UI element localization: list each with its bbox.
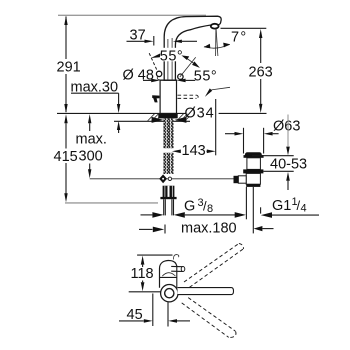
pull-rod knob on body <box>152 95 159 102</box>
drain lower body <box>246 173 260 184</box>
dimension 291 <box>57 16 81 113</box>
dimension 40-53 <box>270 115 307 191</box>
55 degree label (lever lift) <box>159 48 186 62</box>
arrowhead left 55 <box>151 53 160 58</box>
aerator <box>211 24 219 29</box>
handle bar (plan) <box>178 288 234 295</box>
svg-text:8: 8 <box>207 203 213 215</box>
svg-text:263: 263 <box>249 65 273 81</box>
G 3/8 arrows <box>141 212 246 218</box>
pull rod knob curl (plan) <box>174 255 179 260</box>
svg-text:max.180: max.180 <box>181 221 237 237</box>
bottom reference gray line <box>65 202 158 204</box>
faucet head outline (plan) <box>160 260 177 287</box>
diameter 34 arrows <box>152 117 164 123</box>
svg-text:55°: 55° <box>194 69 217 85</box>
spout outline <box>164 16 221 80</box>
drain nut band <box>243 169 263 173</box>
svg-text:415: 415 <box>54 149 78 165</box>
svg-text:143: 143 <box>182 143 206 159</box>
top reference gray line (max height) <box>58 14 206 16</box>
deck cross-section hatching <box>148 114 190 121</box>
drain bottom rim <box>246 184 260 187</box>
deck (mounting surface) line <box>57 112 186 114</box>
svg-text:40-53: 40-53 <box>270 157 307 173</box>
knob curl <box>157 76 160 80</box>
lever stub (plan) <box>171 266 185 271</box>
supply tails <box>164 199 174 215</box>
svg-text:300: 300 <box>79 149 103 165</box>
side port cap <box>234 176 239 183</box>
washer <box>160 197 176 199</box>
drain flange cylinder <box>244 128 264 154</box>
pivot circle <box>161 285 178 302</box>
pull rod ball joint <box>159 174 167 183</box>
body right side <box>176 266 178 288</box>
spout inner lines <box>167 39 169 80</box>
svg-text:max.: max. <box>76 132 107 148</box>
dimension max.180 <box>139 221 274 237</box>
double arrow right 55 <box>181 55 189 60</box>
svg-text:55°: 55° <box>160 49 183 65</box>
dimension 45 <box>119 294 190 327</box>
leader line right <box>180 57 196 77</box>
threaded shank lower <box>164 153 174 174</box>
handle swung up (dashed) <box>184 243 244 287</box>
svg-text:G: G <box>184 199 195 215</box>
7 degree indicator <box>204 29 248 56</box>
top reference line <box>137 254 172 256</box>
threaded shank upper <box>164 118 174 148</box>
dimension diameter 63 <box>225 119 300 136</box>
40-53 lower reference line <box>263 170 293 172</box>
svg-text:Ø63: Ø63 <box>273 119 300 135</box>
dimension max. 300 <box>76 114 107 178</box>
faucet body <box>159 80 177 113</box>
drain upper body <box>247 158 261 170</box>
pull-rod linkage line to drain <box>90 178 234 180</box>
svg-text:Ø34: Ø34 <box>185 106 215 122</box>
drain flange bottom (dark) <box>245 152 262 157</box>
arrow to dashed lever <box>205 88 212 97</box>
dimension 37 <box>127 28 198 46</box>
svg-text:4: 4 <box>301 203 307 215</box>
dimension max.30 <box>71 80 121 134</box>
dimension 263 <box>249 29 273 113</box>
handle swung down (dashed) <box>182 298 236 338</box>
lever knob circle B <box>156 71 161 76</box>
label G 3/8 <box>184 197 213 215</box>
dimension diameter 48 <box>123 67 196 83</box>
263 top reference line <box>221 27 267 29</box>
svg-text:G1: G1 <box>272 198 291 214</box>
mounting flange <box>158 114 177 119</box>
dome arc <box>162 273 175 276</box>
G1 1/4 arrows <box>261 207 319 218</box>
lever neutral dashed outline <box>178 95 199 99</box>
dimension 118 <box>131 256 154 292</box>
svg-text:291: 291 <box>57 60 81 76</box>
mounting nut <box>163 186 175 197</box>
deck underside line <box>114 120 190 122</box>
leader line left (dashed lever position) <box>149 53 157 71</box>
lower reference line <box>129 291 161 293</box>
body mid line <box>160 276 177 278</box>
dimension 415 <box>54 114 78 202</box>
lever knob circle D <box>178 74 183 79</box>
40-53 upper reference line <box>252 155 294 157</box>
extension line at 143 offset <box>215 99 217 155</box>
dimension 143 <box>172 143 216 159</box>
drain tailpipe <box>245 187 247 219</box>
label G1 1/4 <box>272 196 307 215</box>
drain side port <box>238 176 246 183</box>
svg-text:7°: 7° <box>231 30 247 46</box>
svg-text:118: 118 <box>131 266 154 282</box>
